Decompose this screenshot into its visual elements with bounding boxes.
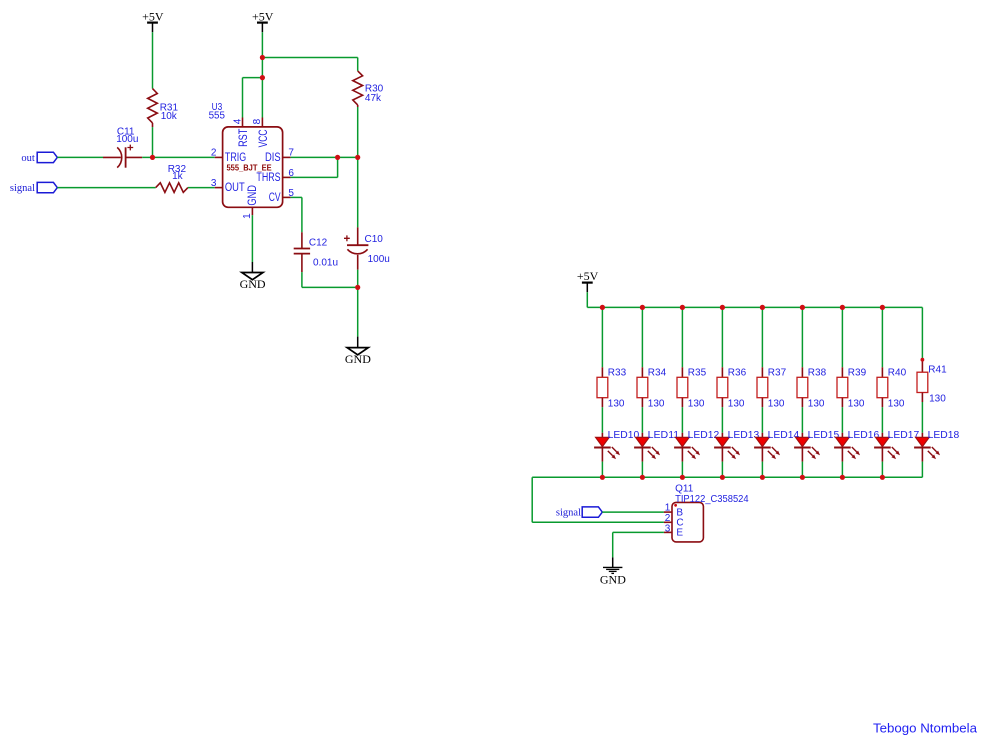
label R39 bbox=[848, 368, 867, 410]
svg-text:R36: R36 bbox=[728, 368, 747, 379]
resistor R30 bbox=[353, 71, 363, 107]
node junction DIS/THRS bbox=[335, 155, 340, 160]
pin 1 marker dot Q11 bbox=[674, 504, 677, 507]
label C10 bbox=[365, 234, 390, 265]
wire THRS horizontal bbox=[291, 176, 338, 178]
wire LED11 to bottom bus bbox=[641, 462, 643, 478]
svg-text:LED14: LED14 bbox=[768, 430, 800, 441]
svg-text:R35: R35 bbox=[688, 368, 707, 379]
pin 5 CV stub bbox=[283, 196, 291, 198]
node junction top bus col 2 bbox=[640, 305, 645, 310]
svg-text:130: 130 bbox=[808, 399, 825, 410]
capacitor C10 bbox=[344, 227, 368, 269]
wire R32 to pin 3 bbox=[188, 187, 215, 189]
node junction top bus col 8 bbox=[880, 305, 885, 310]
svg-text:LED16: LED16 bbox=[848, 430, 880, 441]
svg-text:LED12: LED12 bbox=[688, 430, 720, 441]
svg-text:8: 8 bbox=[252, 118, 263, 124]
label 555_BJT_EE bbox=[227, 162, 272, 172]
wire +5V A to R31 bbox=[152, 32, 154, 88]
svg-text:130: 130 bbox=[688, 399, 705, 410]
svg-text:RST: RST bbox=[238, 129, 250, 147]
pin name VCC (vertical) bbox=[258, 129, 270, 147]
ground GND (C10) bbox=[345, 348, 371, 366]
svg-text:100u: 100u bbox=[116, 134, 138, 145]
label LED11 bbox=[648, 430, 680, 441]
node junction bottom bus col 7 bbox=[840, 475, 845, 480]
node junction top bus col 5 bbox=[760, 305, 765, 310]
wire CV to C12 bbox=[301, 197, 303, 232]
wire C12 to bottom junction bbox=[302, 272, 358, 287]
LED LED12 bbox=[674, 433, 700, 462]
port signal (right) bbox=[556, 507, 602, 519]
node junction VCC/R30 bbox=[260, 55, 265, 60]
label LED13 bbox=[728, 430, 760, 441]
wire R34 to LED11 bbox=[641, 407, 643, 433]
svg-text:10k: 10k bbox=[161, 111, 178, 122]
svg-text:4: 4 bbox=[232, 118, 243, 124]
svg-text:130: 130 bbox=[768, 399, 785, 410]
svg-text:R34: R34 bbox=[648, 368, 667, 379]
node junction RST/VCC bbox=[260, 75, 265, 80]
svg-text:TRIG: TRIG bbox=[225, 152, 246, 164]
label Q11 bbox=[675, 483, 749, 505]
pin name THRS bbox=[256, 172, 280, 184]
power +5V rail A (left) bbox=[142, 9, 164, 32]
wire signal to R32 bbox=[57, 187, 155, 189]
ground GND (pin1) bbox=[240, 273, 266, 291]
node junction TRIG bbox=[150, 155, 155, 160]
pin number 5 bbox=[288, 188, 294, 199]
pin 8 VCC stub bbox=[261, 118, 263, 127]
wire bus to R40 bbox=[881, 307, 883, 367]
wire R33 to LED10 bbox=[601, 407, 603, 433]
pin name E bbox=[676, 528, 683, 539]
svg-text:2: 2 bbox=[211, 148, 217, 159]
wire to Q11 collector bbox=[532, 521, 664, 523]
port out bbox=[21, 152, 57, 164]
wire LED16 to bottom bus bbox=[841, 462, 843, 478]
svg-text:130: 130 bbox=[888, 399, 905, 410]
wire VCC node to R30 top bbox=[262, 57, 357, 59]
wire R36 to LED13 bbox=[721, 407, 723, 433]
svg-text:47k: 47k bbox=[365, 93, 382, 104]
label R30 bbox=[365, 84, 384, 105]
label C11 bbox=[116, 126, 138, 145]
pin name CV bbox=[269, 192, 281, 204]
node junction top bus col 4 bbox=[720, 305, 725, 310]
svg-text:E: E bbox=[676, 528, 683, 539]
resistor R32 bbox=[156, 183, 188, 193]
label R32 bbox=[168, 164, 187, 182]
wire bus to R34 bbox=[641, 307, 643, 367]
port signal (left) bbox=[10, 182, 57, 194]
LED LED14 bbox=[754, 433, 780, 462]
wire top bus bbox=[587, 306, 922, 308]
resistor R37 bbox=[757, 367, 768, 407]
svg-text:LED10: LED10 bbox=[608, 430, 640, 441]
pin number 7 bbox=[288, 148, 294, 159]
resistor R34 bbox=[637, 367, 648, 407]
pin 6 THRS stub bbox=[283, 176, 291, 178]
wire R30 top drop bbox=[357, 58, 359, 71]
svg-text:DIS: DIS bbox=[265, 152, 281, 164]
svg-text:GND: GND bbox=[247, 185, 259, 206]
node junction bottom bus col 1 bbox=[600, 475, 605, 480]
wire bus to R35 bbox=[681, 307, 683, 367]
label LED17 bbox=[888, 430, 920, 441]
svg-text:130: 130 bbox=[929, 394, 946, 405]
svg-text:Tebogo Ntombela: Tebogo Ntombela bbox=[873, 721, 978, 736]
resistor R31 bbox=[148, 89, 158, 128]
power +5V rail C (LED array) bbox=[577, 269, 599, 292]
svg-text:THRS: THRS bbox=[256, 172, 280, 184]
pin number 3 bbox=[211, 178, 217, 189]
pin name B bbox=[676, 508, 683, 519]
svg-text:0.01u: 0.01u bbox=[313, 258, 338, 269]
svg-text:Q11: Q11 bbox=[675, 483, 694, 494]
svg-text:VCC: VCC bbox=[258, 129, 270, 147]
wire CV horizontal bbox=[291, 196, 302, 198]
svg-text:+5V: +5V bbox=[577, 269, 599, 283]
resistor R41 bbox=[917, 360, 928, 402]
svg-text:GND: GND bbox=[345, 352, 371, 366]
svg-text:LED17: LED17 bbox=[888, 430, 920, 441]
svg-text:LED11: LED11 bbox=[648, 430, 680, 441]
pin name OUT bbox=[225, 182, 245, 194]
wire +5V C down bbox=[586, 292, 588, 307]
pin number 3 (Q11) bbox=[665, 523, 671, 534]
node junction R41 top bbox=[921, 358, 925, 362]
svg-text:100u: 100u bbox=[368, 254, 390, 265]
wire bus to R38 bbox=[801, 307, 803, 367]
wire LED12 to bottom bus bbox=[681, 462, 683, 478]
wire R31 to TRIG net bbox=[152, 127, 154, 157]
wire bottom bus left drop bbox=[531, 477, 533, 522]
wire bus to R37 bbox=[761, 307, 763, 367]
resistor R36 bbox=[717, 367, 728, 407]
wire R38 to LED15 bbox=[801, 407, 803, 433]
wire junction to GND bbox=[357, 287, 359, 336]
svg-text:OUT: OUT bbox=[225, 182, 245, 194]
node junction bottom bus col 4 bbox=[720, 475, 725, 480]
label LED16 bbox=[848, 430, 880, 441]
svg-text:R33: R33 bbox=[608, 368, 627, 379]
node junction DIS/R30/C10 bbox=[355, 155, 360, 160]
wire bottom bus bbox=[532, 476, 922, 478]
pin 1 GND stub bbox=[251, 207, 253, 215]
LED LED11 bbox=[634, 433, 660, 462]
signature Tebogo Ntombela bbox=[873, 721, 978, 736]
svg-text:out: out bbox=[21, 153, 35, 164]
svg-text:1: 1 bbox=[242, 213, 253, 219]
svg-text:LED13: LED13 bbox=[728, 430, 760, 441]
pin number 2 bbox=[211, 148, 217, 159]
svg-text:CV: CV bbox=[269, 192, 281, 204]
label U3 bbox=[209, 102, 226, 121]
wire junction to pin 2 bbox=[153, 156, 215, 158]
label R41 bbox=[928, 365, 947, 405]
svg-text:R38: R38 bbox=[808, 368, 827, 379]
wire Q11 emitter horizontal bbox=[613, 531, 664, 533]
wire LED14 to bottom bus bbox=[761, 462, 763, 478]
pin name DIS bbox=[265, 152, 281, 164]
pin name TRIG bbox=[225, 152, 246, 164]
pin 4 RST stub bbox=[242, 118, 244, 127]
svg-text:LED18: LED18 bbox=[928, 430, 960, 441]
svg-text:1: 1 bbox=[665, 503, 671, 514]
wire C10 to bottom junction bbox=[357, 270, 359, 288]
wire LED10 to bottom bus bbox=[601, 462, 603, 478]
wire signal to Q11 base bbox=[602, 511, 664, 513]
capacitor C11 bbox=[103, 145, 142, 168]
LED LED13 bbox=[714, 433, 740, 462]
node junction bottom bus col 3 bbox=[680, 475, 685, 480]
wire RST branch horizontal bbox=[243, 77, 263, 79]
wire down to RST node bbox=[261, 58, 263, 78]
label R31 bbox=[160, 103, 179, 122]
svg-text:R41: R41 bbox=[928, 365, 947, 376]
pin 2 C stub bbox=[664, 521, 672, 523]
wire R35 to LED12 bbox=[681, 407, 683, 433]
wire VCC vertical bbox=[261, 78, 263, 118]
svg-text:3: 3 bbox=[211, 178, 217, 189]
pin number 4 (vertical) bbox=[232, 118, 243, 124]
label R36 bbox=[728, 368, 747, 410]
resistor R40 bbox=[877, 367, 888, 407]
node junction bottom bus col 8 bbox=[880, 475, 885, 480]
ground GND (Q11, earth style) bbox=[600, 567, 626, 586]
svg-text:130: 130 bbox=[728, 399, 745, 410]
label R34 bbox=[648, 368, 667, 410]
svg-text:2: 2 bbox=[665, 513, 671, 524]
node junction bottom bus col 6 bbox=[800, 475, 805, 480]
wire R41 to LED18 bbox=[921, 402, 923, 433]
label R35 bbox=[688, 368, 707, 410]
svg-text:TIP122_C358524: TIP122_C358524 bbox=[675, 494, 749, 505]
pin number 2 (Q11) bbox=[665, 513, 671, 524]
resistor R38 bbox=[797, 367, 808, 407]
wire THRS vertical bbox=[337, 157, 339, 177]
svg-text:+5V: +5V bbox=[252, 9, 274, 23]
wire RST branch vertical bbox=[242, 78, 244, 118]
svg-text:signal: signal bbox=[556, 508, 581, 519]
pin name RST (vertical) bbox=[238, 129, 250, 147]
svg-text:130: 130 bbox=[648, 399, 665, 410]
label R37 bbox=[768, 368, 787, 410]
node junction top bus col 6 bbox=[800, 305, 805, 310]
wire LED15 to bottom bus bbox=[801, 462, 803, 478]
node junction top bus col 7 bbox=[840, 305, 845, 310]
wire GND black stub (Q11) bbox=[612, 557, 614, 567]
wire LED13 to bottom bus bbox=[721, 462, 723, 478]
LED LED17 bbox=[874, 433, 900, 462]
pin name C bbox=[676, 518, 683, 529]
wire R39 to LED16 bbox=[841, 407, 843, 433]
wire R40 to LED17 bbox=[881, 407, 883, 433]
svg-text:R40: R40 bbox=[888, 368, 907, 379]
svg-text:+5V: +5V bbox=[142, 9, 164, 23]
node junction top bus col 3 bbox=[680, 305, 685, 310]
node junction bottom bus col 5 bbox=[760, 475, 765, 480]
pin 1 B stub bbox=[664, 511, 672, 513]
label C12 bbox=[309, 238, 338, 269]
wire +5V B down bbox=[261, 32, 263, 57]
label R33 bbox=[608, 368, 627, 410]
wire bus to R39 bbox=[841, 307, 843, 367]
wire LED18 to bottom bus bbox=[921, 462, 923, 478]
label R40 bbox=[888, 368, 907, 410]
LED LED16 bbox=[834, 433, 860, 462]
wire GND black stub (C10) bbox=[357, 337, 359, 348]
pin number 8 (vertical) bbox=[252, 118, 263, 124]
pin number 1 (Q11) bbox=[665, 503, 671, 514]
svg-text:GND: GND bbox=[600, 573, 626, 587]
svg-text:C12: C12 bbox=[309, 238, 328, 249]
node junction C10/C12/GND bbox=[355, 285, 360, 290]
wire bus to R36 bbox=[721, 307, 723, 367]
pin 2 TRIG stub bbox=[215, 156, 223, 158]
wire C11 to TRIG junction bbox=[142, 156, 152, 158]
pin name GND (vertical) bbox=[247, 185, 259, 206]
label LED14 bbox=[768, 430, 800, 441]
svg-text:R37: R37 bbox=[768, 368, 787, 379]
wire R30 to DIS net bbox=[357, 107, 359, 157]
label R38 bbox=[808, 368, 827, 410]
wire pin1 to GND bbox=[251, 215, 253, 262]
resistor R35 bbox=[677, 367, 688, 407]
node junction top bus col 1 bbox=[600, 305, 605, 310]
svg-text:LED15: LED15 bbox=[808, 430, 840, 441]
pin 3 OUT stub bbox=[215, 187, 223, 189]
svg-text:130: 130 bbox=[608, 399, 625, 410]
svg-text:555: 555 bbox=[209, 111, 226, 122]
label LED18 bbox=[928, 430, 960, 441]
capacitor C12 bbox=[294, 232, 310, 272]
svg-text:3: 3 bbox=[665, 523, 671, 534]
wire GND black stub (pin1) bbox=[251, 262, 253, 273]
svg-text:1k: 1k bbox=[172, 171, 184, 182]
resistor R33 bbox=[597, 367, 608, 407]
pin 7 DIS stub bbox=[283, 156, 291, 158]
wire right drop to R41 bbox=[921, 307, 923, 359]
label LED10 bbox=[608, 430, 640, 441]
svg-text:C10: C10 bbox=[365, 234, 384, 245]
pin number 1 (vertical) bbox=[242, 213, 253, 219]
pin number 6 bbox=[288, 168, 294, 179]
transistor Q11 body bbox=[672, 502, 703, 542]
op-amp U3 555 body bbox=[223, 127, 283, 207]
wire DIS to R30 column bbox=[291, 156, 358, 158]
wire Q11 emitter vertical bbox=[612, 532, 614, 557]
LED LED10 bbox=[594, 433, 620, 462]
label LED12 bbox=[688, 430, 720, 441]
svg-text:130: 130 bbox=[848, 399, 865, 410]
svg-text:GND: GND bbox=[240, 277, 266, 291]
node junction bottom bus col 2 bbox=[640, 475, 645, 480]
pin 3 E stub bbox=[664, 531, 672, 533]
svg-text:R39: R39 bbox=[848, 368, 867, 379]
wire DIS node to C10 bbox=[357, 157, 359, 227]
svg-text:signal: signal bbox=[10, 183, 35, 194]
LED LED15 bbox=[794, 433, 820, 462]
wire LED17 to bottom bus bbox=[881, 462, 883, 478]
resistor R39 bbox=[837, 367, 848, 407]
LED LED18 bbox=[914, 433, 940, 462]
power +5V rail B (555 VCC) bbox=[252, 9, 274, 32]
wire bus to R33 bbox=[601, 307, 603, 367]
wire R37 to LED14 bbox=[761, 407, 763, 433]
label LED15 bbox=[808, 430, 840, 441]
wire out to C11 bbox=[57, 156, 103, 158]
